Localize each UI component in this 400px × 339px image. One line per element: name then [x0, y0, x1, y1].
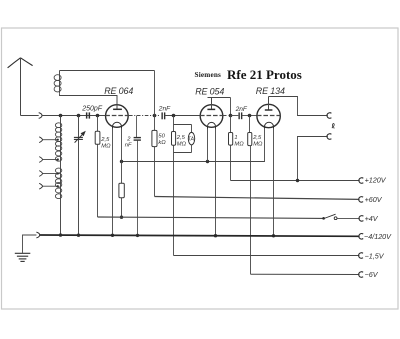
wire coupling cap to RE054 grid: [165, 115, 200, 117]
node rheostat on +4V line: [120, 216, 123, 219]
terminal +4V: [359, 216, 363, 221]
wire tap 3: [43, 172, 59, 174]
wire RE064 plate line (dash-dot): [129, 115, 161, 117]
wire +60V line: [155, 197, 360, 200]
label RE 054: [195, 87, 224, 97]
wire grid leak RE064 upper: [97, 116, 99, 132]
label 2,5 MΩ grid leak RE134: [252, 135, 263, 147]
node +120V output branch: [296, 179, 299, 182]
node RE134 leg on ground bus: [272, 234, 275, 237]
node RE054 leg on ground bus: [214, 234, 217, 237]
svg-text:MΩ: MΩ: [101, 143, 111, 149]
wire RE054 anode top: [208, 97, 231, 99]
label l upper: [332, 124, 335, 129]
terminal +120V: [359, 178, 363, 184]
title Rfe 21 Protos: [227, 67, 302, 82]
wire tap 1: [43, 139, 59, 141]
svg-text:2nF: 2nF: [158, 105, 171, 112]
node grid-leak junction: [96, 114, 100, 118]
svg-text:Siemens: Siemens: [195, 71, 222, 79]
inductor tuning coil: [55, 116, 61, 236]
resistor filament rheostat: [119, 183, 124, 198]
tap 3 connector: [39, 171, 42, 177]
wire RE054 cathode right leg: [215, 129, 217, 236]
wire RE134 cathode right leg: [273, 129, 275, 236]
wire anode node to coupling cap: [231, 115, 239, 117]
svg-text:2,5: 2,5: [100, 137, 110, 143]
wire grid leak combo bottom: [174, 145, 192, 256]
label -6V: [365, 270, 379, 279]
terminal output L lower: [327, 134, 331, 139]
node coil top junction: [59, 114, 63, 118]
node filament RE064: [120, 160, 123, 163]
wire -1,5V line: [174, 255, 360, 257]
tap 4 connector: [39, 183, 42, 189]
wire grid leak combo top: [174, 116, 192, 133]
capacitor 2nF shunt: [134, 116, 141, 236]
connector ground plug: [36, 232, 39, 238]
inductor feedback coil: [54, 71, 61, 94]
capacitor variable tuning: [74, 116, 86, 236]
svg-text:+4V: +4V: [365, 214, 379, 223]
wire RE064 cathode left leg: [112, 129, 114, 236]
node RE054 anode junction: [229, 114, 233, 118]
node RE134 grid leak junction: [248, 114, 252, 118]
antenna: [8, 58, 33, 116]
wire RE054 cathode left leg: [207, 129, 209, 162]
wire filament bus: [122, 129, 265, 162]
wire +4V line left: [98, 217, 324, 218]
wire RE054 anode down to coupling node: [230, 98, 232, 116]
node filament RE054: [206, 160, 209, 163]
switch filament on/off: [322, 214, 337, 219]
resistor 1 MΩ plate load RE054: [229, 133, 233, 146]
wire coupling cap 2 to RE134 grid: [242, 115, 257, 117]
svg-text:1: 1: [234, 135, 237, 141]
ground: [15, 253, 30, 261]
label 2nF second coupling: [235, 106, 248, 113]
wire anode node to 1M: [230, 116, 232, 133]
label +120V: [365, 176, 387, 185]
wire 50k branch vertical: [154, 71, 156, 131]
label RE 134: [256, 86, 285, 96]
resistor 2,5 MΩ grid leak RE134: [248, 133, 252, 146]
node 50k ohm branch: [153, 114, 157, 118]
wire rheostat to +4V line: [121, 198, 123, 218]
svg-text:Rfe 21 Protos: Rfe 21 Protos: [227, 67, 302, 82]
svg-text:−1,5V: −1,5V: [365, 251, 385, 260]
label 2,5 MΩ grid leak RE054: [176, 135, 187, 147]
wire RE054 plate dash: [223, 115, 228, 117]
node shunt cap on bus: [136, 234, 139, 237]
wire output lower terminal to +120V: [298, 137, 328, 181]
wire RE134 grid leak to -6V line: [250, 146, 252, 275]
node RE054 grid leak junction: [172, 114, 176, 118]
svg-text:2,5: 2,5: [176, 135, 186, 141]
terminal output L upper: [327, 113, 331, 118]
wire feedback coil bottom to RE064 anode: [60, 93, 118, 104]
capacitor 250pF: [87, 112, 90, 118]
label -4/120V: [364, 232, 392, 241]
terminal -4/120V: [359, 234, 363, 240]
detector TA: [188, 132, 195, 144]
svg-text:+60V: +60V: [365, 195, 383, 204]
tube RE 134: [257, 97, 281, 129]
label -1,5V: [365, 251, 385, 260]
connector antenna plug: [39, 113, 42, 119]
label 2,5 MΩ: [100, 137, 111, 149]
terminal -6V: [359, 272, 363, 278]
title Siemens: [195, 71, 222, 79]
svg-text:−6V: −6V: [365, 270, 379, 279]
node coil bottom on bus: [59, 233, 62, 236]
wire RE134 grid leak upper: [249, 116, 251, 133]
tube RE 054: [200, 98, 223, 129]
wire RE064 cathode right leg: [121, 129, 123, 183]
svg-text:+120V: +120V: [365, 176, 387, 185]
svg-text:−4/120V: −4/120V: [364, 232, 392, 241]
label 250pF: [81, 106, 103, 113]
wire tap 4: [43, 185, 59, 187]
wire ground bus -4/120V: [40, 235, 360, 236]
svg-text:RE 064: RE 064: [104, 86, 133, 96]
resistor 2,5 MΩ grid leak RE054: [172, 132, 176, 146]
terminal -1,5V: [359, 253, 363, 258]
tap 1 connector: [39, 137, 42, 143]
svg-text:2,5: 2,5: [252, 135, 262, 141]
svg-text:RE 134: RE 134: [256, 86, 285, 96]
node variable cap on bus: [77, 234, 80, 237]
resistor 2,5 MΩ grid leak RE064: [95, 131, 100, 144]
wire 50k to +60V line: [154, 147, 156, 197]
wire +4V line right: [337, 217, 360, 219]
node RE064 leg on ground bus: [111, 234, 114, 237]
label +4V: [365, 214, 379, 223]
label 50 kΩ: [158, 133, 166, 145]
wire ground lead to earth: [23, 235, 37, 253]
capacitor 2nF coupling RE054-RE134: [239, 112, 242, 119]
wire RE134 anode to output terminal: [269, 97, 328, 116]
svg-text:TA: TA: [188, 137, 195, 143]
svg-text:250pF: 250pF: [81, 106, 103, 113]
label 2nF first coupling: [158, 105, 171, 112]
tap 2 connector: [39, 157, 42, 163]
svg-text:MΩ: MΩ: [253, 141, 263, 147]
svg-text:RE 054: RE 054: [195, 87, 224, 97]
tube RE 064: [105, 96, 129, 129]
capacitor 2nF coupling RE064-RE054: [162, 112, 165, 119]
wire main input to RE064 grid: [42, 115, 105, 117]
label +60V: [365, 195, 383, 204]
wire tap 2: [43, 158, 59, 160]
label 1 MΩ: [234, 135, 244, 147]
terminal +60V: [359, 197, 363, 203]
wire antenna lead-in: [21, 115, 39, 117]
svg-text:MΩ: MΩ: [234, 141, 244, 147]
svg-text:nF: nF: [125, 143, 132, 149]
wire +120V line: [231, 180, 360, 182]
wire -6V line: [251, 273, 360, 275]
svg-text:MΩ: MΩ: [177, 142, 187, 148]
label 2 nF: [125, 136, 132, 148]
svg-text:2nF: 2nF: [235, 106, 248, 113]
wire 1M to +120V line: [230, 145, 232, 180]
wire feedback coil top to 50k branch: [60, 70, 155, 72]
svg-text:50: 50: [158, 133, 165, 139]
node variable capacitor junction: [77, 114, 81, 118]
wire grid leak RE064 to +4V line: [97, 144, 99, 217]
label RE 064: [104, 86, 133, 96]
svg-text:kΩ: kΩ: [158, 140, 166, 146]
resistor 50 kΩ anode load RE064: [152, 130, 157, 146]
